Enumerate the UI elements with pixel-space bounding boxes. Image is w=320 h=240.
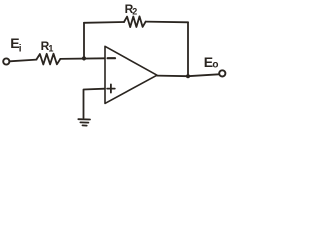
svg-text:i: i [19,44,22,55]
svg-text:2: 2 [132,7,137,17]
wire feedback vertical [83,23,85,58]
resistor R1 [37,54,61,65]
wire top left segment [84,21,124,24]
ground [78,119,90,125]
wire noninverting input to ground [84,89,105,118]
svg-text:o: o [212,60,218,71]
node Ei input terminal [3,58,9,64]
node Eo output terminal [219,70,225,76]
wire R1 to op-amp inverting input [60,57,105,60]
wire input to R1 [10,60,37,62]
svg-text:1: 1 [48,43,53,53]
op-amp U1 [105,46,157,103]
pin minus inverting input symbol [108,57,115,59]
pin plus noninverting input symbol [107,84,115,92]
node junction inverting input [82,56,86,60]
wire right vertical [187,22,189,76]
node junction output [186,74,190,78]
wire top right segment [146,21,188,24]
resistor R2 [124,16,146,27]
wire output [157,74,219,76]
